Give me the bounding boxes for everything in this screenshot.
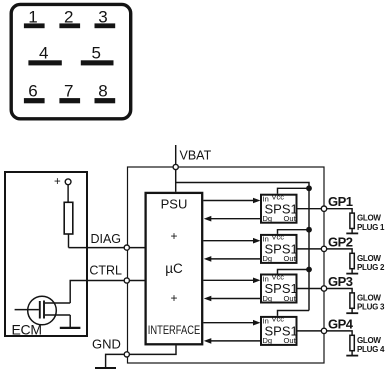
svg-text:GLOW: GLOW <box>357 254 381 263</box>
wire <box>67 185 69 203</box>
wire GP2 to plug <box>327 249 352 253</box>
wire Out4 <box>297 330 322 332</box>
svg-text:6: 6 <box>28 81 37 100</box>
pin 6 <box>24 81 45 103</box>
wire <box>351 229 353 234</box>
svg-text:Dg: Dg <box>263 254 273 263</box>
svg-text:PLUG 4: PLUG 4 <box>357 345 385 354</box>
GLOW PLUG 2 label <box>357 254 385 272</box>
node CTRL pin <box>124 278 129 283</box>
svg-text:Dg: Dg <box>263 294 273 303</box>
controller U1 box <box>146 193 203 344</box>
svg-text:Vcc: Vcc <box>272 272 285 281</box>
GLOW PLUG 3 label <box>357 294 385 312</box>
svg-text:CTRL: CTRL <box>89 264 122 278</box>
svg-text:8: 8 <box>98 81 107 100</box>
ground plug3 <box>346 312 358 314</box>
wire Vcc4 <box>278 311 310 316</box>
svg-text:GP2: GP2 <box>328 234 353 249</box>
wire In4 arrow <box>203 322 254 324</box>
wire Out1 <box>297 208 322 210</box>
wire Out2 <box>297 248 322 250</box>
svg-text:GND: GND <box>92 337 121 352</box>
pin 2 <box>59 8 80 29</box>
wire Dg1 arrow <box>210 218 261 220</box>
wire Vcc3 <box>278 270 310 274</box>
wire Dg3 arrow <box>210 298 261 300</box>
wire GP4 to plug <box>327 331 352 335</box>
ground ECM <box>60 327 81 329</box>
node GP1 pin <box>321 206 326 211</box>
ground plug4 <box>346 355 358 357</box>
wire to chassis ground <box>106 354 125 368</box>
node GP3 pin <box>321 286 326 291</box>
wire Dg2 arrow <box>210 258 261 260</box>
wire <box>351 269 353 274</box>
node GP4 pin <box>321 328 326 333</box>
svg-text:Vcc: Vcc <box>272 193 285 202</box>
wire Out3 <box>297 288 322 290</box>
wire Dg4 arrow <box>210 340 261 342</box>
supply terminal <box>65 179 71 185</box>
wire VBAT branch to Vcc bus <box>176 183 309 311</box>
svg-text:PLUG 1: PLUG 1 <box>357 223 385 232</box>
svg-text:4: 4 <box>39 44 48 63</box>
svg-text:PLUG 2: PLUG 2 <box>357 263 385 272</box>
svg-text:GLOW: GLOW <box>357 294 381 303</box>
connector J1 outline <box>11 4 131 118</box>
resistor R1 <box>64 202 73 234</box>
ground <box>95 367 116 369</box>
svg-text:Vcc: Vcc <box>272 233 285 242</box>
node DIAG pin <box>124 245 129 250</box>
svg-text:GP3: GP3 <box>328 274 353 289</box>
svg-text:GLOW: GLOW <box>357 214 381 223</box>
glow plug 3 heater <box>350 293 354 308</box>
pin 3 <box>95 8 116 29</box>
pin 5 <box>81 44 114 66</box>
svg-text:5: 5 <box>91 44 100 63</box>
wire to ECM ground <box>69 315 71 328</box>
pin 4 <box>28 44 61 66</box>
module boundary <box>128 167 325 363</box>
wire <box>351 308 353 313</box>
pin 7 <box>59 81 80 103</box>
SPS1 driver U4 <box>261 272 298 303</box>
wire CTRL <box>70 281 144 304</box>
svg-text:+: + <box>170 291 177 305</box>
wire Vcc1 <box>278 188 310 193</box>
ground plug1 <box>346 232 358 234</box>
wire In2 arrow <box>203 240 254 242</box>
svg-text:Dg: Dg <box>263 336 273 345</box>
wire Vcc2 <box>278 230 310 234</box>
junction Vcc3 <box>306 267 312 273</box>
svg-text:+: + <box>54 176 61 188</box>
wire VBAT stub <box>175 145 177 164</box>
pin 8 <box>95 81 116 103</box>
glow plug 2 heater <box>350 253 354 268</box>
transistor Q1 <box>15 296 71 325</box>
junction Vcc2 <box>306 227 312 233</box>
svg-text:Out: Out <box>284 214 297 223</box>
pin 1 <box>24 8 45 29</box>
svg-text:Out: Out <box>284 294 297 303</box>
SPS1 driver U3 <box>261 233 298 264</box>
svg-text:Out: Out <box>284 336 297 345</box>
svg-text:GP1: GP1 <box>328 194 353 209</box>
svg-text:VBAT: VBAT <box>180 149 212 163</box>
wire VBAT to PSU <box>175 170 177 192</box>
svg-text:µC: µC <box>165 261 183 276</box>
wire <box>351 351 353 356</box>
junction Vcc1 <box>306 185 312 191</box>
ground plug2 <box>346 273 358 275</box>
GLOW PLUG 4 label <box>357 336 385 354</box>
node VBAT pin <box>173 164 178 169</box>
svg-text:PLUG 3: PLUG 3 <box>357 303 385 312</box>
svg-text:7: 7 <box>64 81 73 100</box>
svg-text:Dg: Dg <box>263 214 273 223</box>
svg-text:Vcc: Vcc <box>272 315 285 324</box>
wire In1 arrow <box>203 200 254 202</box>
node GND pin <box>124 352 129 357</box>
SPS1 driver U5 <box>261 315 298 346</box>
glow plug 1 heater <box>350 213 354 228</box>
wire GP1 to plug <box>327 209 352 213</box>
svg-text:GP4: GP4 <box>328 316 354 331</box>
svg-text:INTERFACE: INTERFACE <box>148 324 200 338</box>
wire In3 arrow <box>203 279 254 281</box>
svg-text:GLOW: GLOW <box>357 336 381 345</box>
GLOW PLUG 1 label <box>357 214 385 232</box>
wire <box>68 234 70 248</box>
svg-text:+: + <box>170 229 177 243</box>
ECM box <box>5 172 87 336</box>
svg-text:DIAG: DIAG <box>90 232 121 246</box>
wire DIAG <box>69 247 145 249</box>
node GP2 pin <box>321 246 326 251</box>
svg-text:Out: Out <box>284 254 297 263</box>
wire GP3 to plug <box>327 289 352 293</box>
wire GND pin <box>129 345 176 354</box>
svg-text:PSU: PSU <box>161 197 188 212</box>
SPS1 driver U2 <box>261 193 298 224</box>
glow plug 4 heater <box>350 335 354 350</box>
